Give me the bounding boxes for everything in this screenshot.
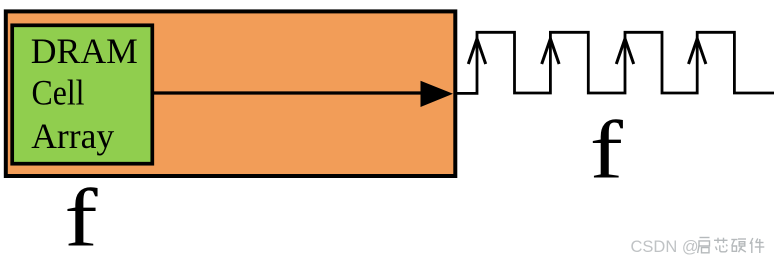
watermark char 硬	[731, 239, 746, 252]
watermark char 件	[750, 238, 764, 253]
wire: arrow shaft from green box to right edge of orange block	[152, 91, 423, 94]
svg-text:CSDN @: CSDN @	[631, 238, 699, 256]
up arrowhead on rising edge 2	[542, 39, 559, 64]
up arrowhead on rising edge 4	[689, 39, 706, 64]
svg-text:Array: Array	[31, 116, 114, 156]
watermark char 启	[698, 238, 710, 254]
green DRAM cell array box	[12, 25, 152, 163]
watermark char 芯	[714, 238, 728, 252]
up arrowhead on rising edge 3	[616, 39, 633, 64]
up arrowhead on rising edge 1	[468, 39, 485, 64]
svg-text:f: f	[64, 171, 98, 263]
svg-text:Cell: Cell	[32, 73, 85, 113]
orange outer block	[6, 11, 456, 176]
wire: clock waveform square wave	[457, 32, 775, 93]
svg-text:f: f	[590, 103, 624, 195]
arrowhead (filled) at orange block right edge	[421, 81, 454, 107]
svg-text:DRAM: DRAM	[31, 31, 138, 71]
